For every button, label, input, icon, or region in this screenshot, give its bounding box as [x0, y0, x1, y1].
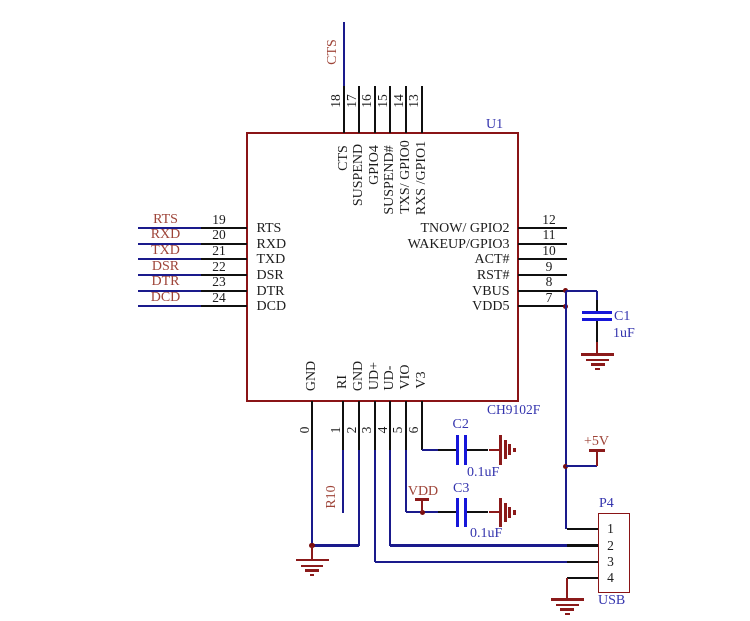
pin 17 name SUSPEND: [352, 144, 366, 206]
pin 18 name CTS: [337, 145, 351, 171]
IC U1 CH9102F body: [246, 132, 518, 402]
value 1uF: [613, 326, 635, 342]
junction pin 7 VDD5: [563, 304, 568, 309]
pin 17 (top): [358, 86, 360, 133]
pin 6 name V3: [415, 371, 429, 388]
net label RTS: [153, 212, 178, 228]
pin 8 (right): [518, 290, 567, 292]
wire net CTS (vertical): [343, 22, 345, 86]
net label DCD: [151, 290, 181, 306]
pin 2 number: [345, 427, 359, 434]
wire V3 from pin6: [421, 401, 423, 450]
pin 11 (right): [518, 243, 567, 245]
pin 22 (left): [201, 274, 247, 276]
pin 3 (bottom): [374, 401, 376, 450]
pin 16 name GPIO4: [368, 145, 382, 185]
pin 13 (top): [421, 86, 423, 133]
pin 24 (left): [201, 305, 247, 307]
junction VDD: [420, 510, 425, 515]
designator U1: [486, 117, 503, 133]
pin 8 name VBUS: [360, 284, 510, 300]
pin 13 name RXS /GPIO1: [415, 141, 429, 215]
pin 16 number: [360, 94, 374, 108]
ground below C1: [596, 342, 598, 355]
pin 5 (bottom): [405, 401, 407, 450]
pin 22 number: [212, 259, 226, 275]
pin 15 number: [376, 94, 390, 108]
ground right of C3: [489, 511, 501, 513]
pin 18 number: [329, 94, 343, 108]
pin 23 name DTR: [257, 284, 285, 300]
P4 pin 2: [567, 544, 598, 546]
value CH9102F: [487, 402, 540, 418]
pin 24 name DCD: [257, 299, 287, 315]
designator C1: [614, 309, 630, 325]
P4 pin 3 number: [607, 554, 614, 570]
wire UD+ from pin3: [374, 450, 376, 562]
pin 18 (top): [343, 86, 345, 133]
pin 4 name UD-: [383, 365, 397, 390]
pin 6 (bottom): [421, 401, 423, 450]
pin 14 (top): [405, 86, 407, 133]
P4 pin 3: [567, 561, 598, 563]
net label TXD: [151, 243, 180, 259]
value USB: [598, 593, 625, 609]
pin 9 (right): [518, 274, 567, 276]
wire UD- from pin4: [389, 450, 391, 546]
wire GND from pin0: [311, 450, 313, 546]
pin 5 number: [391, 427, 405, 434]
capacitor C1: [596, 300, 598, 311]
power symbol +5V: [596, 451, 598, 466]
pin 1 number: [329, 427, 343, 434]
pin 11 number: [543, 227, 556, 243]
wire net DSR (left): [138, 274, 201, 276]
pin 15 (top): [389, 86, 391, 133]
pin 10 name ACT#: [360, 252, 510, 268]
pin 19 number: [212, 212, 226, 228]
pin 6 number: [407, 427, 421, 434]
junction GND: [309, 543, 314, 548]
pin 9 number: [546, 259, 553, 275]
pin 14 number: [392, 94, 406, 108]
P4 pin 2 number: [607, 538, 614, 554]
pin 20 (left): [201, 243, 247, 245]
net label RXD: [151, 227, 181, 243]
designator C3: [453, 481, 469, 497]
pin 4 number: [376, 427, 390, 434]
value 0.1uF (C2): [467, 465, 499, 481]
connector P4 body: [598, 513, 630, 592]
pin 2 (bottom): [358, 401, 360, 450]
pin 11 name WAKEUP/GPIO3: [360, 237, 510, 253]
pin 14 name TXS/ GPIO0: [399, 140, 413, 214]
P4 pin 1 number: [607, 521, 614, 537]
P4 pin 1: [567, 528, 598, 530]
pin 22 name DSR: [257, 268, 284, 284]
net label +5V: [584, 434, 609, 450]
junction pin 8 VBUS: [563, 288, 568, 293]
pin 20 number: [212, 227, 226, 243]
pin 21 number: [212, 243, 226, 259]
ground right of C2: [489, 449, 501, 451]
ground below P4 pin4: [566, 578, 568, 600]
P4 pin 4 number: [607, 570, 614, 586]
pin 4 (bottom): [389, 401, 391, 450]
pin 1 name RI: [336, 375, 350, 389]
capacitor C2: [438, 449, 456, 451]
pin 12 (right): [518, 227, 567, 229]
P4 pin 4: [567, 577, 598, 579]
pin 15 name SUSPEND#: [383, 145, 397, 214]
wire +5V: [566, 465, 597, 467]
wire GND from pin2: [358, 450, 360, 546]
pin 7 number: [546, 290, 553, 306]
pin 0 (bottom): [311, 401, 313, 450]
pin 1 (bottom): [342, 401, 344, 450]
pin 12 number: [542, 212, 556, 228]
pin 7 name VDD5: [360, 299, 510, 315]
ground symbol bottom-left: [311, 546, 313, 561]
wire VBUS to C1: [566, 290, 597, 292]
pin 17 number: [345, 94, 359, 108]
pin 13 number: [407, 94, 421, 108]
designator P4: [599, 496, 614, 512]
pin 9 name RST#: [360, 268, 510, 284]
pin 8 number: [546, 274, 553, 290]
pin 24 number: [212, 290, 226, 306]
net label R10: [325, 485, 339, 508]
pin 23 number: [212, 274, 226, 290]
net label CTS: [326, 39, 340, 65]
net label VDD: [408, 484, 438, 500]
wire net RXD (left): [138, 243, 201, 245]
capacitor C3: [438, 511, 456, 513]
wire VBUS vertical bus down to P4 pin1: [565, 291, 567, 530]
wire net DCD (left): [138, 305, 201, 307]
pin 7 (right): [518, 305, 567, 307]
pin 19 name RTS: [257, 221, 282, 237]
pin 20 name RXD: [257, 237, 287, 253]
pin 0 name GND: [305, 360, 319, 390]
pin 3 number: [360, 427, 374, 434]
value 0.1uF (C3): [470, 526, 502, 542]
pin 16 (top): [374, 86, 376, 133]
wire VIO/VDD from pin5: [405, 450, 407, 513]
power symbol VDD: [421, 499, 423, 513]
junction +5V: [563, 464, 568, 469]
pin 10 (right): [518, 258, 567, 260]
pin 21 name TXD: [257, 252, 286, 268]
pin 3 name UD+: [368, 362, 382, 390]
pin 2 name GND: [352, 360, 366, 390]
designator C2: [453, 417, 469, 433]
wire GND horizontal pin0-pin2: [312, 544, 359, 546]
pin 21 (left): [201, 258, 247, 260]
pin 19 (left): [201, 227, 247, 229]
pin 0 number: [298, 427, 312, 434]
pin 12 name TNOW/ GPIO2: [360, 221, 510, 237]
net label DTR: [152, 274, 180, 290]
net label DSR: [152, 259, 179, 275]
pin 5 name VIO: [399, 364, 413, 389]
pin 23 (left): [201, 290, 247, 292]
pin 10 number: [542, 243, 556, 259]
wire RI stub from pin1: [342, 450, 344, 514]
wire net RTS (left): [138, 227, 201, 229]
wire net DTR (left): [138, 290, 201, 292]
wire net TXD (left): [138, 258, 201, 260]
